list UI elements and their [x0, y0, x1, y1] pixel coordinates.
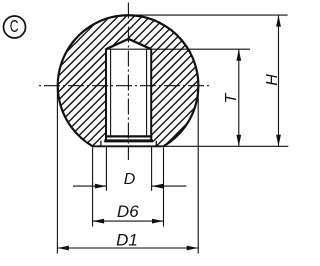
horizontal centerline	[39, 85, 212, 87]
T arrow up	[236, 49, 241, 61]
T dimension line	[238, 49, 240, 146]
svg-text:D6: D6	[117, 202, 139, 221]
svg-text:H: H	[264, 74, 281, 86]
hole right wall	[150, 49, 152, 141]
D extension line right	[151, 146, 153, 191]
D6 extension line left	[92, 148, 94, 227]
svg-text:T: T	[223, 92, 240, 103]
D1 arrow left	[57, 246, 69, 251]
D arrow right	[152, 184, 164, 189]
D extension line left	[105, 146, 107, 191]
H top extension line	[132, 14, 288, 16]
D6 arrow left	[93, 219, 105, 224]
hole bottom line	[105, 135, 152, 137]
bottom extension line	[164, 145, 288, 147]
hole white cutout	[106, 39, 151, 142]
H arrow down	[276, 135, 281, 147]
svg-text:D1: D1	[116, 231, 138, 250]
D6 dimension line	[93, 220, 164, 222]
hole drill point triangle	[106, 39, 151, 49]
svg-text:C: C	[10, 17, 19, 37]
D dimension line left	[73, 185, 106, 187]
svg-text:D: D	[124, 171, 136, 188]
recess wall right	[155, 141, 157, 146]
vertical centerline	[127, 3, 129, 161]
thread line right	[146, 49, 148, 135]
ball flat bottom	[92, 145, 165, 147]
T top extension line	[105, 48, 250, 50]
thread line left	[110, 49, 112, 135]
counterbore ceiling	[104, 139, 153, 142]
D1 dimension line	[57, 247, 198, 249]
D dimension line right	[152, 185, 187, 187]
D arrow left	[95, 184, 107, 189]
hole left wall	[105, 49, 107, 141]
D1 arrow right	[187, 246, 199, 251]
D6 arrow right	[152, 219, 164, 224]
H arrow up	[276, 15, 281, 27]
D1 extension line left	[56, 88, 58, 254]
D1 extension line right	[197, 88, 199, 254]
recess wall left	[100, 141, 102, 146]
ball outline	[58, 15, 199, 146]
recess white cutout	[101, 142, 156, 146]
T arrow down	[236, 135, 241, 147]
D6 extension line right	[163, 148, 165, 227]
form mark circle C	[4, 16, 26, 38]
H dimension line	[278, 15, 280, 146]
